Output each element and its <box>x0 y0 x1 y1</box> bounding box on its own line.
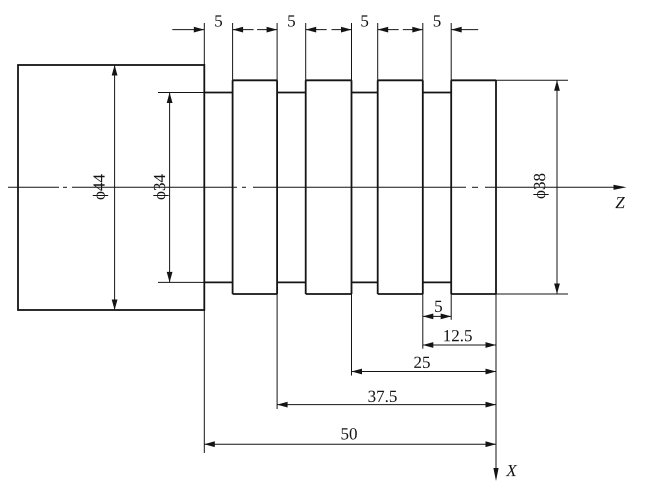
dimension "50" <box>204 443 496 445</box>
text: X axis label <box>506 465 517 476</box>
text: bottom groove "5" <box>435 301 442 312</box>
dimension "5" groove 4 width <box>403 29 478 31</box>
text: groove width labels "5" <box>215 15 222 26</box>
centerline (dash-dot axis of the shaft) <box>8 186 615 188</box>
text: "37.5" <box>368 391 396 402</box>
extension lines above the shaft for groove width dims <box>204 23 451 80</box>
text: phi38 label (rotated) <box>533 174 548 199</box>
X axis arrowhead <box>493 468 498 481</box>
X axis line <box>495 294 497 470</box>
dimension phi34 extension lines <box>158 93 204 283</box>
text: Z axis label <box>615 197 624 208</box>
extension lines below the shaft for length dims <box>204 294 451 453</box>
text: "50" <box>341 428 356 439</box>
dimension phi34 <box>169 93 171 283</box>
part outline: phi44 cylinder (left rectangle) <box>18 65 204 310</box>
dimension "12.5" <box>423 344 496 346</box>
text: phi34 label (rotated) <box>153 174 168 199</box>
dimension "25" <box>352 371 497 373</box>
dimension phi44 <box>114 65 116 310</box>
dimension "5" groove 1 width <box>172 29 253 31</box>
dimension phi38 extension lines <box>496 80 568 294</box>
text: phi44 label (rotated) <box>93 174 108 199</box>
dimension "37.5" <box>277 404 496 406</box>
dimension "5" groove 2 width <box>257 29 327 31</box>
dimension "5" bottom groove width <box>423 315 451 317</box>
dimension "5" groove 3 width <box>332 29 399 31</box>
Z axis arrowhead <box>614 185 627 190</box>
dimension phi38 <box>556 80 558 294</box>
part outline: grooved shaft (phi38 lands, phi34 grooves) <box>204 80 496 294</box>
text: "25" <box>414 357 430 368</box>
text: "12.5" <box>444 330 472 341</box>
